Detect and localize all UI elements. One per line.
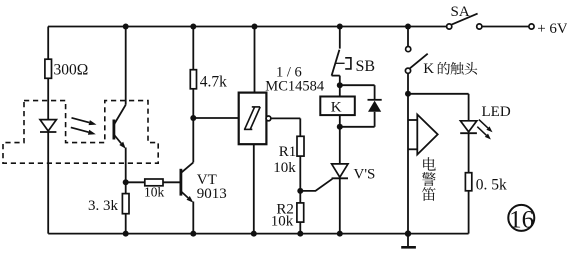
terminal +6V	[529, 24, 534, 29]
wire siren column	[407, 94, 409, 234]
resistor 0.5k	[465, 173, 471, 191]
cjk de	[438, 62, 450, 75]
phototransistor	[125, 27, 127, 105]
contact K	[407, 27, 409, 47]
node inverter input	[190, 115, 196, 121]
siren horn	[408, 119, 417, 121]
svg-text:LED: LED	[482, 104, 511, 120]
thyristor VS	[339, 127, 341, 164]
wire gate	[300, 179, 332, 191]
diode flyback	[340, 84, 375, 86]
node top rail junctions	[123, 24, 129, 30]
optocoupler dashed outline	[3, 101, 158, 164]
wire 4.7k to collector node	[192, 89, 194, 163]
wire 300ohm to LED	[47, 78, 49, 119]
svg-text:0. 5k: 0. 5k	[476, 176, 507, 193]
svg-text:V'S: V'S	[354, 167, 376, 183]
svg-text:K: K	[423, 61, 434, 77]
resistor 3.3k	[122, 194, 129, 214]
inverter output bubble	[266, 116, 271, 121]
svg-text:10k: 10k	[271, 214, 294, 230]
cjk dian	[423, 157, 436, 170]
node R1 R2 junction	[297, 188, 303, 194]
wire top rail	[48, 26, 447, 28]
resistor 4.7k	[192, 27, 194, 70]
ground	[405, 230, 411, 236]
svg-text:4.7k: 4.7k	[200, 74, 227, 91]
svg-text:K: K	[331, 99, 342, 115]
cjk tou	[465, 62, 478, 75]
wire inverter input	[193, 117, 238, 119]
svg-text:10k: 10k	[144, 185, 165, 200]
opto LED diode	[40, 120, 56, 131]
pushbutton SB	[339, 27, 341, 49]
wire inverter output	[271, 117, 300, 119]
node emitter junction	[123, 179, 129, 185]
resistor 300ohm R	[45, 59, 52, 78]
wire inverter vdd	[254, 27, 256, 93]
op-amp U1 schmitt inverter 1/6 MC14584	[239, 93, 267, 145]
resistor 10k base	[126, 181, 145, 183]
hysteresis symbol	[244, 128, 252, 130]
cjk jing	[422, 172, 436, 186]
switch SA	[447, 24, 452, 29]
node contact bottom	[405, 91, 411, 97]
svg-text:3. 3k: 3. 3k	[88, 198, 119, 214]
wire inverter vss	[253, 144, 255, 233]
svg-text:+ 6V: + 6V	[537, 21, 567, 37]
node SB bottom	[337, 82, 343, 88]
svg-text:9013: 9013	[197, 186, 227, 202]
figure number 16	[508, 205, 534, 231]
wire to LED branch	[408, 93, 469, 95]
svg-text:10k: 10k	[273, 160, 296, 176]
svg-text:R1: R1	[279, 144, 297, 160]
cjk di	[422, 187, 436, 201]
wire bottom rail	[48, 233, 468, 235]
resistor R2 10k	[297, 203, 304, 222]
svg-text:SA: SA	[451, 4, 470, 20]
svg-text:SB: SB	[356, 58, 376, 75]
wire left rail top	[47, 27, 49, 60]
cjk chu	[451, 62, 464, 75]
resistor R1 10k	[297, 136, 304, 156]
wire LED cathode down-left rail	[47, 132, 49, 234]
svg-text:300Ω: 300Ω	[54, 62, 89, 79]
svg-text:MC14584: MC14584	[265, 79, 325, 95]
light arrows	[72, 118, 90, 123]
LED	[460, 121, 476, 132]
relay K coil	[339, 85, 341, 96]
transistor VT 9013	[179, 169, 182, 196]
node K bottom	[337, 124, 343, 130]
svg-text:16: 16	[509, 206, 534, 233]
